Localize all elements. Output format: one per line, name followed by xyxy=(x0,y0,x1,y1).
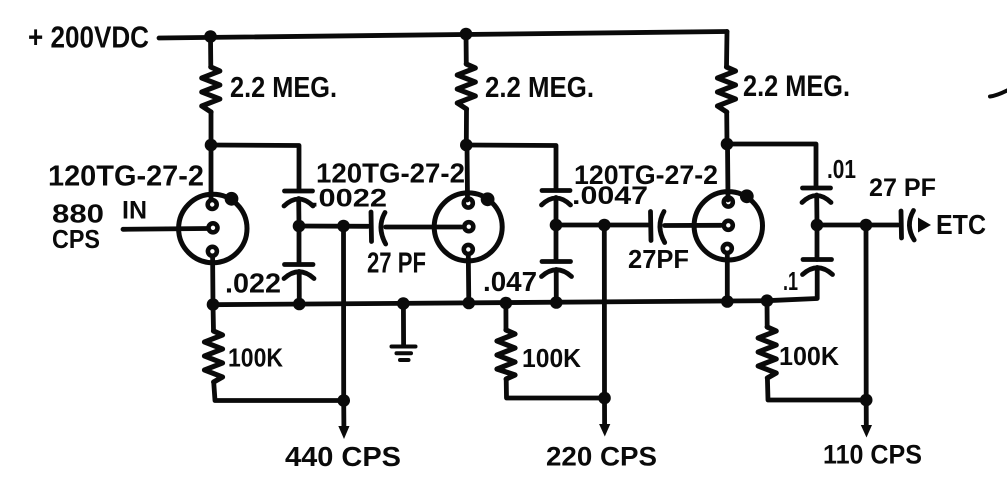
capacitor C9 27PF left plate xyxy=(899,211,904,238)
wire: tube V2 cathode lead to ground rail xyxy=(466,255,471,303)
capacitor C8 .1 top lead xyxy=(815,225,820,260)
svg-text:110 CPS: 110 CPS xyxy=(823,440,922,470)
wire: C1 bottom tick to junction xyxy=(296,199,301,227)
wire: R4 bottom to 440 output junction xyxy=(214,382,344,401)
resistor R4 100K stage1: top lead xyxy=(211,305,216,332)
tube V3 bottom pin xyxy=(723,244,732,253)
stray pen mark top right xyxy=(990,91,1007,97)
tube V1 120TG-27-2 envelope xyxy=(179,194,247,262)
node: grid junction stage3 (C .01 / C .1 / coupling) xyxy=(811,219,824,232)
wire: C2 bottom tick to ground rail xyxy=(297,272,302,305)
wire: rail to R1 top xyxy=(208,37,213,68)
wire: C5 bottom tick to ground rail xyxy=(554,270,559,303)
tube V2 120TG-27-2 envelope xyxy=(434,193,502,261)
svg-text:.1: .1 xyxy=(783,266,798,296)
svg-text:100K: 100K xyxy=(228,343,283,373)
capacitor C3 27PF left plate xyxy=(369,212,374,242)
resistor R6 100K zigzag xyxy=(758,327,776,378)
capacitor C4 .0047 curved plate xyxy=(542,198,571,205)
svg-text:.01: .01 xyxy=(827,154,856,184)
resistor R6 100K stage3: top lead xyxy=(765,301,770,327)
wire: R5 bottom to 220 output junction xyxy=(506,379,604,398)
node: 440 output junction xyxy=(337,394,350,407)
ground symbol bar 3 xyxy=(400,358,409,362)
svg-text:220 CPS: 220 CPS xyxy=(546,442,657,472)
resistor R5 100K stage2: top lead xyxy=(503,303,508,330)
wire: 220 arrow stem xyxy=(602,398,607,424)
tube V2 index wedge xyxy=(481,192,495,206)
node: rail end junction (C .1 / R 100K) xyxy=(761,294,774,307)
capacitor C2 .022 top lead xyxy=(297,226,302,262)
svg-text:2.2 MEG.: 2.2 MEG. xyxy=(743,70,850,103)
svg-text:120TG-27-2: 120TG-27-2 xyxy=(574,160,718,190)
tube V1 bottom pin xyxy=(208,247,217,256)
node: 110 output junction xyxy=(860,394,873,407)
tube V1 index wedge xyxy=(225,192,239,206)
wire: 110 arrow stem xyxy=(864,400,869,425)
wire: 440 CPS drop line xyxy=(341,226,346,401)
arrow: 440 CPS output xyxy=(338,426,349,439)
wire: input lead 880 CPS xyxy=(123,226,207,232)
node: ground tie point xyxy=(397,297,410,310)
tube V2 middle pin xyxy=(464,222,473,231)
svg-text:+ 200VDC: + 200VDC xyxy=(28,20,149,55)
wire: C4 bottom tick to junction xyxy=(554,198,559,226)
resistor R4 100K zigzag xyxy=(205,331,223,382)
wire: R3 bottom to anode node xyxy=(724,112,729,144)
wire: anode 3 across to C .01 xyxy=(727,144,816,187)
capacitor C3 27PF curved plate xyxy=(381,213,386,245)
wire: ground rail xyxy=(211,301,767,305)
wire: C3 to tube 2 input xyxy=(386,225,461,230)
node: tube V3 cathode at rail xyxy=(721,295,734,308)
capacitor C8 .1 curved plate xyxy=(803,268,833,275)
tube V1 top pin xyxy=(208,200,217,209)
node: top rail junction stage 1 xyxy=(204,30,217,43)
svg-text:440 CPS: 440 CPS xyxy=(285,441,401,472)
capacitor C8 .1 top plate xyxy=(803,257,832,262)
svg-text:ETC: ETC xyxy=(936,209,986,240)
ground symbol bar 2 xyxy=(397,351,412,355)
capacitor C2 .022 top plate xyxy=(285,262,314,267)
node: top rail junction stage 2 xyxy=(460,28,473,41)
node: C2 at ground rail xyxy=(293,298,306,311)
wire: rail to R2 top xyxy=(464,34,469,64)
svg-text:2.2 MEG.: 2.2 MEG. xyxy=(485,72,594,104)
capacitor C1 .0022 top plate xyxy=(285,189,313,194)
node: R 100K stage2 at rail xyxy=(500,297,513,310)
tube V1 middle pin xyxy=(209,223,218,232)
svg-text:120TG-27-2: 120TG-27-2 xyxy=(316,158,465,189)
node: anode junction stage 1 xyxy=(205,139,218,152)
capacitor C4 .0047 top plate xyxy=(542,188,570,193)
wire: tube V1 cathode lead to ground rail xyxy=(210,256,215,305)
node: coupling junction stage 2 xyxy=(598,219,611,232)
svg-text:27PF: 27PF xyxy=(628,244,689,274)
resistor R2 2.2 MEG zigzag xyxy=(457,64,475,109)
wire: stage3 grid junction to output cap xyxy=(817,223,898,228)
node: C5 at ground rail xyxy=(550,296,563,309)
resistor R5 100K zigzag xyxy=(497,330,515,379)
wire: stage1 grid junction to coupling cap xyxy=(299,224,368,229)
capacitor C7 .01 top plate xyxy=(803,186,831,191)
wire: C7 bottom tick to junction xyxy=(814,195,819,225)
node: anode junction stage 2 xyxy=(460,139,473,152)
capacitor C7 .01 curved plate xyxy=(802,196,831,203)
capacitor C5 .047 top lead xyxy=(554,225,559,261)
svg-text:2.2 MEG.: 2.2 MEG. xyxy=(230,72,337,104)
capacitor C2 .022 curved plate xyxy=(284,272,314,279)
capacitor C6 27PF left plate xyxy=(648,212,653,241)
wire: C8 bottom tick down and left to rail end xyxy=(767,268,817,301)
wire: R6 bottom to 110 output junction xyxy=(767,378,866,400)
tube V2 top pin xyxy=(464,199,473,208)
arrow: 220 CPS output xyxy=(599,424,610,437)
svg-text:27 PF: 27 PF xyxy=(869,174,936,202)
tube V3 index wedge xyxy=(740,189,754,203)
wire: anode 2 across to C .0047 xyxy=(466,145,556,189)
wire: R1 bottom to anode node xyxy=(209,112,214,145)
ground symbol bar 1 xyxy=(392,345,416,349)
tube V2 bottom pin xyxy=(464,245,473,254)
capacitor C1 .0022 curved plate xyxy=(284,199,313,206)
arrow: ETC output xyxy=(918,218,931,233)
capacitor C5 .047 top plate xyxy=(542,259,571,264)
svg-text:27 PF: 27 PF xyxy=(367,248,426,280)
wire: anode 1 across to C .0022 xyxy=(211,145,299,189)
resistor R3 2.2 MEG zigzag xyxy=(718,67,736,112)
wire: 440 arrow stem xyxy=(341,401,346,427)
svg-text:100K: 100K xyxy=(522,343,581,373)
svg-text:.047: .047 xyxy=(483,266,537,297)
arrow: 110 CPS output xyxy=(861,425,872,438)
wire: anode 2 to tube 2 top pin xyxy=(465,145,470,200)
wire: anode 3 to tube 3 top pin xyxy=(725,144,730,200)
wire: 220 CPS drop line xyxy=(602,225,607,398)
wire: anode 1 to tube 1 top pin xyxy=(209,145,214,200)
wire: tube V3 cathode lead to ground rail xyxy=(725,254,730,302)
node: tube V1 cathode / R 100K at rail xyxy=(207,298,220,311)
wire: +200VDC top rail xyxy=(159,32,727,39)
wire: 110 CPS drop line xyxy=(864,225,869,400)
tube V3 120TG-27-2 envelope xyxy=(694,192,762,260)
svg-text:120TG-27-2: 120TG-27-2 xyxy=(48,161,204,193)
wire: stage2 grid junction to coupling cap xyxy=(556,223,648,228)
capacitor C9 27PF curved plate xyxy=(909,211,914,241)
tube V3 top pin xyxy=(724,198,733,207)
svg-text:.0022: .0022 xyxy=(310,185,387,213)
wire: R2 bottom to anode node xyxy=(464,109,469,145)
node: 220 output junction xyxy=(598,392,611,405)
svg-text:CPS: CPS xyxy=(52,224,100,254)
node: grid junction stage1 (C .0022 / C .022 / coupling) xyxy=(293,220,306,233)
svg-text:100K: 100K xyxy=(779,341,839,371)
wire: top rail drop to R3 xyxy=(724,32,729,68)
resistor R1 2.2 MEG zigzag xyxy=(202,67,220,112)
node: coupling junction stage 3 xyxy=(860,219,873,232)
node: coupling junction stage 1 xyxy=(337,220,350,233)
svg-text:IN: IN xyxy=(122,197,147,225)
wire: C6 to tube 3 input xyxy=(665,223,721,228)
ground symbol stem xyxy=(401,304,406,345)
node: tube V2 cathode at rail xyxy=(463,297,476,310)
capacitor C5 .047 curved plate xyxy=(542,270,572,277)
svg-text:.022: .022 xyxy=(225,268,281,299)
tube V3 middle pin xyxy=(724,221,733,230)
capacitor C6 27PF curved plate xyxy=(660,212,665,243)
node: grid junction stage2 (C .0047 / C .047 / coupling) xyxy=(550,219,563,232)
node: anode junction stage 3 xyxy=(721,138,734,151)
